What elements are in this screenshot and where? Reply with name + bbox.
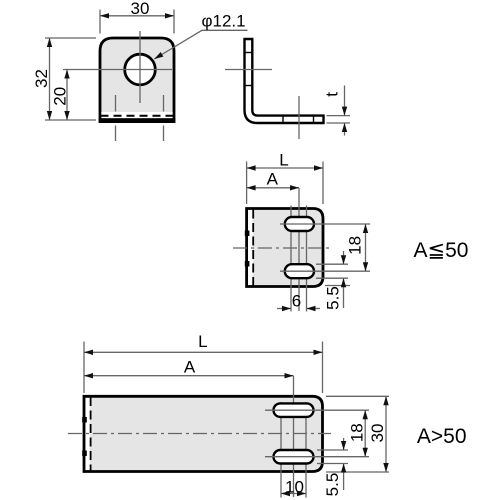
svg-text:φ12.1: φ12.1 [202,12,246,31]
svg-text:30: 30 [131,0,150,18]
svg-text:32: 32 [32,69,51,88]
svg-text:L: L [198,332,207,351]
svg-text:L: L [279,151,288,170]
svg-text:A≦50: A≦50 [414,239,469,262]
svg-text:5.5: 5.5 [324,286,343,310]
svg-text:18: 18 [346,236,365,255]
svg-text:A: A [267,170,279,189]
svg-text:6: 6 [292,292,301,311]
svg-text:A: A [184,358,196,377]
svg-text:10: 10 [285,478,304,497]
svg-text:t: t [323,92,342,97]
svg-text:30: 30 [368,424,387,443]
svg-text:20: 20 [51,87,70,106]
svg-text:5.5: 5.5 [323,473,342,497]
svg-text:A>50: A>50 [417,425,467,448]
svg-text:18: 18 [347,423,366,442]
